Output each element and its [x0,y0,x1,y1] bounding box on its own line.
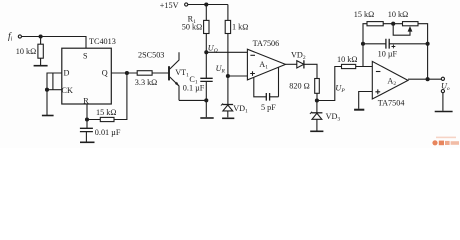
op-amp A2 plus mark [375,89,380,94]
capacitor C1 top lead [205,52,207,78]
wire emitter node down [205,100,207,117]
svg-text:10 kΩ: 10 kΩ [337,55,357,64]
svg-text:TC4013: TC4013 [89,37,116,46]
wire 15k to pot [383,23,402,25]
svg-text:15 kΩ: 15 kΩ [354,10,374,19]
resistor 820 body [315,79,320,94]
svg-text:50 kΩ: 50 kΩ [182,22,202,31]
svg-text:0.1 µF: 0.1 µF [183,83,205,92]
capacitor 5pF plates [266,93,269,101]
wire UR to A1 plus [228,75,248,77]
svg-text:10 kΩ: 10 kΩ [388,10,408,19]
wire R lead down [86,104,88,120]
wire emitter row [179,99,206,101]
node UQ junction [205,51,208,54]
wire Uo bottom to ground [442,93,444,111]
op-amp A1 plus mark [250,71,255,76]
node fi input terminal [18,35,21,38]
junction R node [86,118,89,121]
wire A2 plus input [359,92,373,109]
resistor R1 50k body [204,20,209,33]
ground VD1 [222,117,234,119]
junction output feedback [426,78,429,81]
potentiometer wiper loop [393,24,410,36]
capacitor 0.01uF bottom lead [85,132,87,142]
watermark logo [432,137,459,146]
wire feedback left leg [363,24,367,67]
junction emitter C1 [205,99,208,102]
svg-text:2SC503: 2SC503 [138,51,164,60]
wire Q output [111,72,137,74]
capacitor 5pF feedback left leg [254,77,266,96]
resistor 15k top body [367,22,383,26]
resistor 820 bottom lead [316,93,318,100]
diode VD3 triangle [312,113,322,119]
capacitor 10uF plates [386,39,389,49]
svg-text:+15V: +15V [160,1,179,10]
diode VD1 lead [227,76,229,105]
junction CK [46,88,49,91]
resistor 10k input leads [40,37,42,66]
junction UR plus input [226,75,229,78]
svg-text:3.3 kΩ: 3.3 kΩ [135,78,157,87]
ground A2 plus [354,109,364,111]
svg-text:820 Ω: 820 Ω [289,82,309,91]
junction rail R1 [205,3,208,6]
potentiometer wiper arrow [408,26,413,32]
wire fi to S corner [22,37,87,49]
svg-text:Q: Q [102,69,108,78]
capacitor C1 bottom lead [205,81,207,100]
resistor 10k input body [38,44,43,58]
svg-text:10 kΩ: 10 kΩ [16,47,36,56]
capacitor 10uF plus mark [392,45,396,49]
diode VD3 lead [316,101,318,113]
diode VD1 bar tick [221,103,223,105]
diode VD3 bar tick [310,112,312,114]
wire 3.3k to base [152,72,168,74]
diode VD1 triangle [223,105,233,111]
junction cap row left [362,42,365,45]
junction input/R 10k [39,35,42,38]
svg-text:S: S [83,51,88,60]
diode VD2 triangle [297,61,304,68]
ground output [435,111,453,113]
wire +15V rail [188,4,228,6]
diode VD3 cathode bar [311,112,322,114]
transistor VT1 base bar [168,66,170,80]
node +15V terminal [185,3,188,6]
svg-text:D: D [64,69,70,78]
svg-text:TA7506: TA7506 [253,39,280,48]
op-amp A1 minus mark [250,54,255,56]
flip-flop U TC4013 box [62,48,112,104]
diode VD2 cathode bar [303,60,305,68]
svg-text:TA7504: TA7504 [378,99,405,108]
resistor 10k A2 body [342,64,356,68]
resistor 1k body [225,20,230,33]
node Uo terminal bottom [441,90,444,93]
wire A2 output [408,78,441,80]
svg-text:CK: CK [62,86,73,95]
resistor 15k feedback body [100,117,114,121]
capacitor 5pF right leg [270,68,279,97]
resistor 3.3k body [137,71,152,76]
op-amp A2 TA7504 [372,61,408,99]
op-amp A2 minus mark [376,71,381,73]
junction Q feedback [125,72,128,75]
wire UP to 10k [317,67,342,101]
wire pot right leg [418,24,428,79]
capacitor 10uF left lead [363,43,386,45]
transistor VT1 emitter arrow [175,82,179,87]
capacitor 10uF right lead [389,43,427,45]
capacitor 0.01uF plates [80,128,93,131]
junction UP node [315,99,318,102]
transistor VT1 collector [170,52,179,69]
ground input resistor [34,65,48,67]
diode VD1 cathode bar [223,104,234,106]
ground 0.01uF [80,141,95,143]
diode VD3 bottom lead [316,119,318,130]
svg-text:10 µF: 10 µF [378,49,398,58]
potentiometer 10k body [403,22,419,26]
wire D input [47,73,62,115]
ground D-CK [42,115,54,117]
wire A1 output [286,63,297,65]
transistor VT1 emitter [170,77,179,100]
svg-text:5 pF: 5 pF [261,103,276,112]
junction cap row right [426,42,429,45]
capacitor 0.01uF lead [86,120,88,129]
op-amp A1 TA7506 [247,49,285,80]
svg-text:1 kΩ: 1 kΩ [232,22,248,31]
ground emitter [200,117,213,119]
ground VD3 [310,130,323,132]
node Uo terminal top [441,77,444,80]
resistor 15k feedback leads [87,73,127,120]
resistor 1k leads [227,5,229,77]
resistor R1 50k leads [205,5,207,53]
wire 10k to A2 minus [356,66,373,68]
svg-text:R: R [83,96,89,105]
wire CK input [47,89,62,91]
capacitor C1 plates [200,78,212,81]
svg-text:15 kΩ: 15 kΩ [96,108,116,117]
svg-text:0.01 µF: 0.01 µF [95,128,121,137]
diode VD1 bottom lead [227,111,229,117]
wire VD2 to 820 corner [304,64,317,78]
wire UQ row to A1 minus [206,51,247,53]
junction 15k pot [392,22,395,25]
